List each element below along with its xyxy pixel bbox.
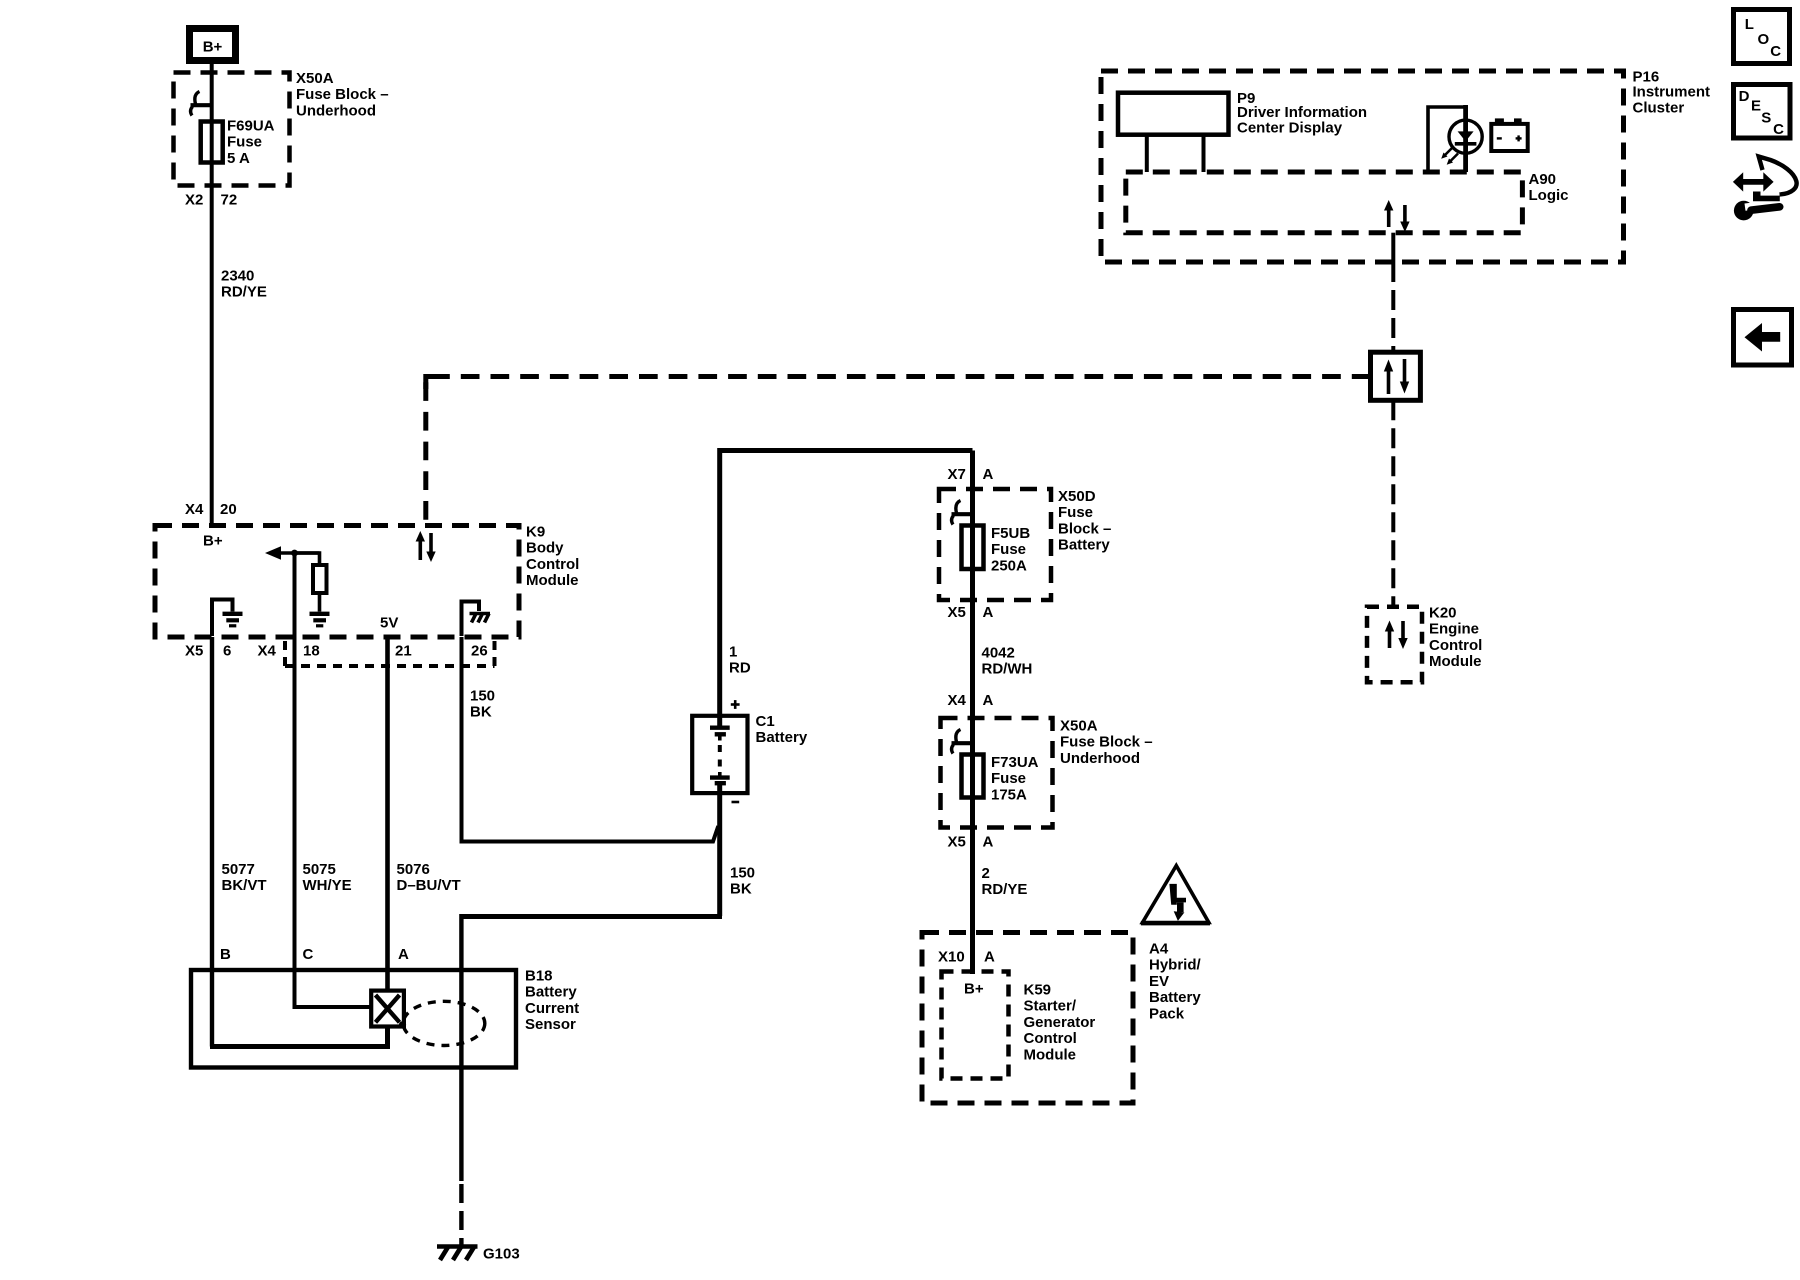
svg-text:C1: C1 [756, 713, 775, 730]
wire label 1 RD [729, 644, 751, 677]
wire label 4042 RD/WH [982, 645, 1033, 678]
svg-text:L: L [1745, 16, 1754, 33]
up-down data arrows inside K20 [1385, 621, 1408, 650]
svg-text:5077: 5077 [222, 861, 255, 878]
svg-text:175A: 175A [991, 786, 1027, 803]
svg-text:BK/VT: BK/VT [222, 877, 267, 894]
wire label 150 BK (pin 26) [470, 688, 495, 721]
fuse clip symbol X50A [952, 730, 973, 754]
svg-text:F73UA: F73UA [991, 754, 1039, 771]
svg-text:250A: 250A [991, 557, 1027, 574]
svg-text:21: 21 [395, 643, 412, 660]
battery current sensor B18 box [191, 970, 516, 1068]
svg-text:X4: X4 [258, 643, 277, 660]
svg-text:RD/WH: RD/WH [982, 661, 1033, 678]
pin label X5 A [948, 604, 994, 621]
svg-text:A: A [398, 946, 409, 963]
chassis ground branch at pin 26 inside K9 [462, 602, 480, 637]
label B18 Battery Current Sensor [525, 968, 579, 1034]
svg-text:B: B [220, 946, 231, 963]
svg-text:B+: B+ [964, 981, 984, 998]
chassis ground symbol [470, 614, 491, 623]
svg-text:C: C [303, 946, 314, 963]
wire pin B riser into X-box [210, 1028, 388, 1047]
pin label X4 20 [185, 501, 237, 518]
svg-text:6: 6 [223, 643, 231, 660]
svg-text:Underhood: Underhood [1060, 750, 1140, 767]
svg-text:Logic: Logic [1529, 187, 1569, 204]
svg-text:2340: 2340 [221, 268, 254, 285]
body control module K9 dashed box [155, 526, 519, 638]
label C1 Battery [756, 713, 808, 746]
dashed current-loop ellipse [403, 1001, 485, 1045]
svg-text:Pack: Pack [1149, 1005, 1185, 1022]
svg-text:A: A [983, 692, 994, 709]
svg-text:18: 18 [303, 643, 320, 660]
svg-text:Battery: Battery [525, 984, 577, 1001]
connector X4 dashed box under K9 [285, 641, 495, 666]
svg-text:20: 20 [220, 501, 237, 518]
label A90 Logic [1529, 171, 1569, 204]
label F73UA Fuse 175A [991, 754, 1039, 803]
plus terminal label [731, 700, 740, 709]
svg-text:Module: Module [526, 572, 579, 589]
instrument cluster P16 dashed box [1101, 71, 1624, 262]
battery positive wire 1 RD up and over to X50D X7-A [720, 451, 973, 728]
svg-text:Current: Current [525, 1000, 579, 1017]
wire 150 BK from K9 X4-26 to battery negative [462, 637, 719, 842]
svg-text:Control: Control [1024, 1030, 1077, 1047]
fuse block X50D battery dashed box [939, 489, 1051, 600]
indicator LED symbol U1 [1428, 105, 1482, 172]
svg-text:Battery: Battery [756, 729, 808, 746]
display P9 (driver information center) [1118, 93, 1229, 172]
label K59 Starter Generator Control Module [1024, 982, 1096, 1064]
serial data junction box with arrows [1371, 352, 1421, 400]
label X50A Fuse Block Underhood [1060, 718, 1153, 767]
label X50A Fuse Block Underhood [296, 70, 389, 119]
svg-text:Instrument: Instrument [1633, 84, 1711, 101]
svg-text:D: D [1739, 88, 1750, 105]
label F69UA Fuse 5A [227, 118, 275, 167]
fuse F73UA 175A [962, 755, 984, 798]
svg-text:G103: G103 [483, 1246, 520, 1263]
up-down data arrows inside A90 [1384, 200, 1410, 232]
svg-text:X2: X2 [185, 192, 203, 209]
battery telltale icon [1491, 118, 1527, 151]
svg-text:Fuse: Fuse [1058, 504, 1093, 521]
label P16 Instrument Cluster [1633, 69, 1711, 117]
pin label X10 A [938, 949, 995, 966]
svg-text:Cluster: Cluster [1633, 100, 1685, 117]
label P9 Driver Information Center Display [1237, 90, 1367, 136]
starter generator control module K59 dashed box [942, 972, 1009, 1079]
fuse clip symbol X50D [952, 501, 973, 525]
svg-text:S: S [1761, 110, 1771, 127]
svg-text:1: 1 [729, 644, 737, 661]
svg-text:B+: B+ [203, 533, 223, 550]
wire label 2340 RD/YE [221, 268, 267, 301]
svg-text:Generator: Generator [1024, 1014, 1096, 1031]
svg-text:A90: A90 [1529, 171, 1557, 188]
B+ power terminal box [190, 29, 236, 61]
battery negative wire 150 BK down [717, 785, 722, 916]
fuse block X50A underhood (top left) dashed box [174, 73, 290, 186]
pin labels X5 6 X4 18 21 26 [185, 643, 488, 660]
svg-text:A4: A4 [1149, 941, 1169, 958]
svg-text:RD/YE: RD/YE [221, 284, 267, 301]
sensor element X-box inside B18 [371, 991, 404, 1027]
svg-text:K20: K20 [1429, 605, 1457, 622]
battery C1 box [692, 716, 747, 793]
svg-text:F5UB: F5UB [991, 525, 1030, 542]
svg-text:Fuse: Fuse [991, 541, 1026, 558]
dashed data bus to K20 [1391, 400, 1395, 606]
svg-text:X4: X4 [948, 692, 967, 709]
svg-text:D–BU/VT: D–BU/VT [397, 877, 461, 894]
junction node dot [291, 550, 298, 557]
LOC reference box [1734, 10, 1790, 64]
svg-text:X50A: X50A [296, 70, 334, 87]
svg-text:X4: X4 [185, 501, 204, 518]
svg-text:X5: X5 [948, 604, 966, 621]
svg-text:Fuse Block –: Fuse Block – [1060, 734, 1153, 751]
svg-text:Fuse: Fuse [991, 770, 1026, 787]
fuse F69UA 5A [201, 122, 223, 163]
svg-text:A: A [984, 949, 995, 966]
pin label X5 A [948, 834, 994, 851]
svg-text:EV: EV [1149, 973, 1169, 990]
svg-text:K9: K9 [526, 524, 545, 541]
svg-text:B18: B18 [525, 968, 553, 985]
wire 5076 D-BU/VT from K9 X4-21 to sensor pin A [385, 637, 390, 991]
svg-text:Module: Module [1024, 1046, 1077, 1063]
chassis ground G103 symbol [437, 1247, 478, 1261]
fuse F5UB 250A [962, 526, 984, 570]
svg-text:Battery: Battery [1058, 537, 1110, 554]
svg-text:BK: BK [730, 881, 752, 898]
back navigation arrow box [1734, 310, 1792, 366]
wire 5077 BK/VT from K9 X5-6 to sensor pin B [210, 637, 214, 1047]
wire label 150 BK (battery negative) [730, 865, 755, 898]
DESC reference box [1734, 85, 1791, 139]
svg-text:C: C [1773, 121, 1784, 138]
svg-text:26: 26 [471, 643, 488, 660]
high voltage warning triangle [1141, 866, 1210, 924]
svg-text:X50D: X50D [1058, 488, 1096, 505]
ground symbol under resistor [310, 614, 330, 626]
svg-text:5076: 5076 [397, 861, 430, 878]
minus terminal label [732, 801, 740, 804]
svg-text:Underhood: Underhood [296, 102, 376, 119]
dashed data bus to K9 [426, 377, 1371, 524]
svg-text:Fuse: Fuse [227, 134, 262, 151]
svg-text:5V: 5V [380, 615, 398, 632]
label X50D Fuse Block Battery [1058, 488, 1111, 554]
svg-text:Fuse Block –: Fuse Block – [296, 86, 389, 103]
ground symbol at pin 6 branch [223, 614, 243, 626]
svg-text:72: 72 [221, 192, 238, 209]
junction dot at X-box corner [399, 1021, 406, 1028]
pin labels B C A [220, 946, 409, 963]
svg-text:5 A: 5 A [227, 150, 250, 167]
corner piece of dashed bus [426, 377, 441, 390]
pin label X4 A [948, 692, 994, 709]
svg-text:A: A [983, 834, 994, 851]
svg-text:Sensor: Sensor [525, 1016, 576, 1033]
wire 2340 RD/YE from B+ through fuse F69UA down to K9 X4-20 [210, 64, 214, 523]
svg-text:Control: Control [1429, 637, 1482, 654]
wire 5075 WH/YE from K9 X4-18 to sensor pin C [295, 553, 372, 1007]
svg-text:X5: X5 [185, 643, 203, 660]
svg-text:K59: K59 [1024, 982, 1052, 999]
battery cell plates [710, 728, 730, 784]
fuse block X50A underhood (right) dashed box [941, 718, 1053, 828]
svg-text:2: 2 [982, 865, 990, 882]
label A4 Hybrid EV Battery Pack [1149, 941, 1202, 1023]
label F5UB Fuse 250A [991, 525, 1030, 574]
svg-text:5075: 5075 [303, 861, 336, 878]
svg-text:F69UA: F69UA [227, 118, 275, 135]
svg-text:X5: X5 [948, 834, 966, 851]
svg-text:C: C [1770, 43, 1781, 60]
svg-text:150: 150 [470, 688, 495, 705]
svg-text:A: A [983, 466, 994, 483]
svg-text:Engine: Engine [1429, 621, 1479, 638]
wire label 5077 BK/VT [222, 861, 267, 894]
wire label 5076 D-BU/VT [397, 861, 461, 894]
up-down data arrows inside K9 [416, 531, 436, 562]
wire label 5075 WH/YE [303, 861, 352, 894]
svg-text:Block –: Block – [1058, 520, 1111, 537]
svg-text:4042: 4042 [982, 645, 1015, 662]
resistor (pull-up) inside K9 [295, 553, 327, 612]
svg-text:O: O [1758, 31, 1770, 48]
svg-text:B+: B+ [203, 39, 223, 56]
serial data link from A90 down [1391, 233, 1395, 262]
svg-text:Control: Control [526, 556, 579, 573]
engine control module K20 dashed box [1367, 607, 1422, 683]
ground branch from pin X5-6 inside K9 [212, 600, 233, 637]
svg-text:X50A: X50A [1060, 718, 1098, 735]
svg-text:Starter/: Starter/ [1024, 998, 1077, 1015]
main ground wire through B18 to G103 [461, 914, 719, 1246]
svg-text:RD/YE: RD/YE [982, 881, 1028, 898]
svg-text:Module: Module [1429, 653, 1482, 670]
svg-text:WH/YE: WH/YE [303, 877, 352, 894]
svg-text:BK: BK [470, 704, 492, 721]
logic A90 dashed box [1126, 172, 1523, 233]
diagnostic arrow-wrench icon [1733, 157, 1797, 221]
pin label X2 72 [185, 192, 237, 209]
svg-text:Hybrid/: Hybrid/ [1149, 957, 1202, 974]
pin label X7 A [948, 466, 994, 483]
svg-text:RD: RD [729, 660, 751, 677]
wire label 2 RD/YE [982, 865, 1028, 898]
svg-text:A: A [983, 604, 994, 621]
svg-text:Battery: Battery [1149, 989, 1201, 1006]
svg-text:Body: Body [526, 540, 564, 557]
svg-text:X10: X10 [938, 949, 965, 966]
svg-text:150: 150 [730, 865, 755, 882]
label K9 Body Control Module [526, 524, 579, 590]
signal arrow pointing left inside K9 [265, 546, 320, 559]
svg-text:Center Display: Center Display [1237, 119, 1343, 136]
svg-text:E: E [1751, 98, 1761, 115]
fuse clip symbol [191, 92, 212, 116]
label K20 Engine Control Module [1429, 605, 1482, 671]
hybrid EV battery pack A4 dashed box [922, 933, 1133, 1104]
svg-text:X7: X7 [948, 466, 966, 483]
high current wire through fuse blocks X50D and X50A to K59 [970, 451, 975, 975]
